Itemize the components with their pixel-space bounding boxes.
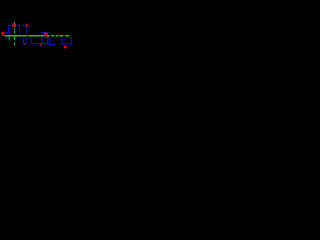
u-bracket A right leg bbox=[25, 38, 28, 44]
pin R7 below rail P bbox=[40, 44, 41, 46]
wire B8 horizontal (structure 3) bbox=[42, 31, 49, 34]
pin R5b tick below net (component Q) bbox=[48, 36, 49, 37]
net dashed vertical below R1 bbox=[14, 28, 15, 30]
net main horizontal green line segments bbox=[5, 35, 50, 36]
component Q rail bbox=[49, 44, 55, 45]
wire B6 horizontal (structure 2) bbox=[23, 25, 28, 28]
wire B7 vertical down to net bbox=[26, 27, 27, 34]
wire B2 left leg vertical bbox=[7, 25, 10, 33]
right U bottom rail bbox=[61, 43, 72, 44]
wire B1 horizontal (structure 1 top) bbox=[8, 24, 19, 27]
component Q leg down bbox=[49, 37, 50, 45]
u-bracket A bottom bbox=[23, 43, 27, 44]
rail P tick up bbox=[30, 38, 33, 45]
pin R8 below right U bbox=[64, 46, 67, 49]
junction R1 (selected) bbox=[12, 23, 16, 27]
background bbox=[0, 0, 74, 74]
wire B10 right loop vertical (crosses under net) bbox=[46, 33, 49, 44]
wire B4 right leg vertical bbox=[18, 25, 21, 34]
right U middle tick bbox=[64, 37, 67, 40]
pin R3 bar (structure 2) bbox=[26, 24, 28, 27]
wire B12 staircase step 2 bbox=[6, 38, 8, 39]
wire B9 left loop vertical (crosses under net) bbox=[41, 33, 44, 44]
pin R5a tick below junction R4 bbox=[45, 37, 47, 38]
crossing dim spot on net at structure 2 bbox=[27, 35, 28, 36]
junction R4 (selected, on net) bbox=[44, 33, 47, 37]
pin R6 below bracket A bbox=[24, 44, 25, 45]
pin R2 (left selected pin) bbox=[2, 32, 5, 36]
right U right leg bbox=[70, 37, 73, 44]
right U left leg bbox=[60, 37, 63, 44]
wire B11 staircase below net start bbox=[4, 36, 5, 37]
u-bracket A left leg bbox=[22, 38, 25, 44]
wire B5 short vertical (structure 2) bbox=[22, 24, 25, 27]
net stub green below line left bbox=[9, 36, 10, 40]
node stub green above junction R1 bbox=[14, 22, 15, 24]
rail P horizontal bbox=[31, 43, 48, 44]
wire B3 bottom-left horizontal to pin bbox=[4, 32, 9, 33]
